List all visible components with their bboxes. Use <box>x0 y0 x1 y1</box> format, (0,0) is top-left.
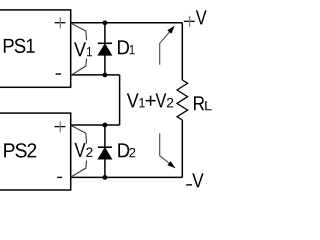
junction dot bottom of D1 <box>103 73 108 78</box>
wire: top rail from PS1 + to +V corner <box>71 22 183 24</box>
junction dot top of D2 <box>103 123 108 128</box>
diode D2 triangle <box>98 148 112 159</box>
V2 label <box>75 143 86 157</box>
V1 label <box>74 42 86 56</box>
diode D1 lead wire <box>104 23 106 75</box>
power supply PS2 box <box>0 113 71 190</box>
wire: right rail lower from resistor to -V corner <box>181 120 183 177</box>
PS2 - terminal <box>57 176 62 178</box>
junction dot bottom of D2 <box>103 175 108 180</box>
wire: series link corner to PS2 + <box>71 124 120 126</box>
V2 voltage brace upper <box>71 126 86 144</box>
diode D1 cathode bar <box>98 42 112 44</box>
V2 voltage brace lower <box>71 161 86 177</box>
power supply PS1 box <box>0 10 71 87</box>
PS1 label <box>4 39 35 53</box>
wire: series link vertical <box>119 75 121 125</box>
PS1 - terminal <box>56 73 61 75</box>
D1 label <box>118 40 129 54</box>
diode D1 triangle <box>98 44 112 55</box>
wire: PS1 - to series link corner <box>71 74 120 76</box>
V1 voltage brace upper <box>71 23 86 40</box>
D2 label <box>118 143 129 157</box>
diode D2 lead wire <box>104 125 106 177</box>
wire: bottom rail from -V corner to PS2 - <box>71 176 183 178</box>
V1 voltage brace lower <box>71 58 86 75</box>
diode D2 cathode bar <box>98 146 112 148</box>
current arrow bottom toward -V <box>160 133 171 164</box>
PS1 + terminal <box>55 22 66 24</box>
RL label <box>194 96 204 110</box>
+V label <box>184 20 195 22</box>
resistor RL zigzag <box>177 80 188 120</box>
current arrow top toward +V <box>160 31 171 65</box>
wire: right rail upper down to resistor <box>181 23 183 80</box>
PS2 + terminal <box>55 126 66 128</box>
-V label <box>186 184 192 186</box>
junction dot top of D1 <box>103 20 108 25</box>
PS2 label <box>4 143 36 157</box>
V1+V2 label <box>127 93 139 107</box>
